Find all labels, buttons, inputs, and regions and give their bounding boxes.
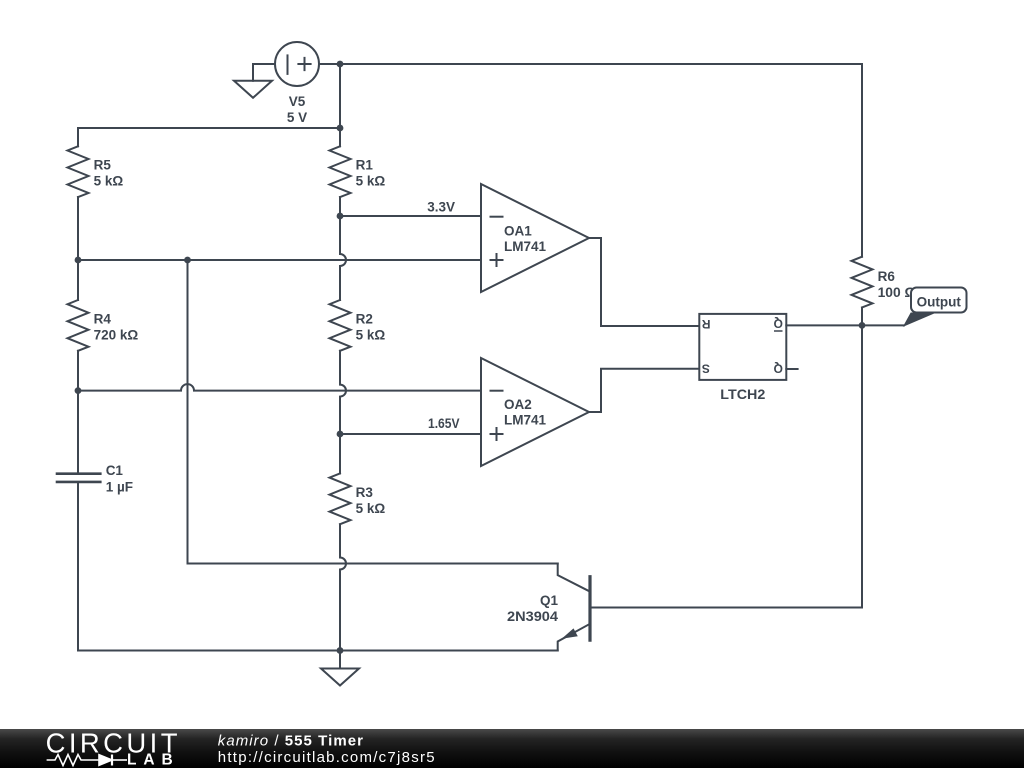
node junction at (340,650.5): [337, 647, 344, 654]
svg-text:R4: R4: [94, 311, 112, 326]
output flag box: [911, 288, 967, 313]
resistor R3: [330, 434, 351, 524]
wire +5V branch to R5 (y=128): [78, 127, 340, 129]
svg-text:5 kΩ: 5 kΩ: [356, 327, 386, 342]
svg-text:C1: C1: [106, 463, 124, 478]
node junction at (78,390.6): [75, 387, 82, 394]
svg-text:R1: R1: [356, 158, 374, 173]
wire V5 positive terminal to node: [319, 63, 340, 65]
svg-text:S: S: [702, 361, 710, 375]
svg-text:5 V: 5 V: [287, 110, 307, 125]
svg-text:3.3V: 3.3V: [427, 200, 455, 215]
svg-text:V5: V5: [289, 94, 306, 109]
node junction at (340,216): [337, 213, 344, 220]
svg-text:http://circuitlab.com/c7j8sr5: http://circuitlab.com/c7j8sr5: [218, 749, 436, 766]
ground symbol at V5: [234, 81, 272, 98]
svg-text:LM741: LM741: [504, 239, 547, 254]
wire top +5V rail from V5 node to right rail: [340, 63, 862, 65]
svg-text:R6: R6: [878, 269, 896, 284]
node junction at (78,260): [75, 257, 82, 264]
op-amp OA1: [481, 184, 589, 292]
capacitor C1: [56, 391, 102, 651]
wire control net: node down from threshold net to collector rail: [188, 260, 558, 564]
resistor R5: [68, 128, 89, 260]
wire trigger net: left rail to OA2 inverting input with hop at x=187.5: [78, 384, 481, 390]
node junction at (862,325.4): [859, 322, 866, 329]
voltage source V5: [275, 42, 319, 86]
wire main rail V5 node down to R1: [339, 64, 341, 128]
latch LTCH2: [699, 314, 786, 380]
pin label Q-bar (rotated, bar below): [774, 316, 783, 331]
ground symbol at bottom: [321, 651, 359, 686]
wire OA2 output to latch S input: [589, 369, 699, 412]
wire output node down to Q1 base: [590, 325, 862, 607]
transistor Q1: [558, 564, 590, 651]
CircuitLab logo resistor-diode glyph: [47, 755, 127, 766]
svg-text:1 µF: 1 µF: [106, 480, 133, 495]
wire rail segment R1 to R2 with hop over +input net: [340, 216, 346, 300]
svg-text:OA1: OA1: [504, 223, 532, 238]
svg-text:OA2: OA2: [504, 397, 532, 412]
svg-text:R3: R3: [356, 485, 374, 500]
svg-text:5 kΩ: 5 kΩ: [356, 501, 386, 516]
node junction at (340,128): [337, 125, 344, 132]
svg-text:Q: Q: [774, 361, 783, 375]
svg-text:R5: R5: [94, 158, 112, 173]
resistor R1: [330, 128, 351, 216]
svg-text:Q: Q: [774, 316, 783, 330]
svg-text:5 kΩ: 5 kΩ: [356, 174, 386, 189]
wire rail segment R3 to ground node with hop over collector rail: [340, 524, 346, 650]
svg-text:R2: R2: [356, 311, 373, 326]
footer bar: [0, 729, 1024, 768]
wire OA1 output to latch R input: [589, 238, 699, 326]
svg-text:Output: Output: [917, 294, 962, 309]
node junction at (187.5,260): [184, 257, 191, 264]
wire bottom ground rail: [78, 650, 558, 652]
svg-text:2N3904: 2N3904: [507, 609, 559, 624]
wire latch Q-bar output to output node: [786, 324, 904, 326]
svg-text:LM741: LM741: [504, 413, 547, 428]
wire V5 negative terminal to ground: [253, 64, 275, 81]
svg-text:LTCH2: LTCH2: [720, 387, 765, 402]
wire 1.65V net: rail node to OA2 non-inverting input: [340, 433, 481, 435]
svg-text:kamiro / 555 Timer: kamiro / 555 Timer: [218, 732, 364, 749]
svg-text:720 kΩ: 720 kΩ: [94, 327, 139, 342]
resistor R4: [68, 260, 89, 391]
wire threshold net: left rail to OA1 non-inverting input (y=260): [78, 259, 481, 261]
svg-text:LAB: LAB: [127, 751, 180, 768]
resistor R6: [852, 64, 873, 325]
node junction at (340,64): [337, 61, 344, 68]
svg-text:5 kΩ: 5 kΩ: [94, 174, 124, 189]
output flag pointer: [904, 313, 934, 326]
node junction at (340,434): [337, 431, 344, 438]
wire rail segment R2 to trigger node with hop over y=390.6 net: [340, 351, 346, 434]
wire latch Q output stub: [786, 368, 797, 370]
svg-text:R: R: [701, 317, 710, 331]
op-amp OA2: [481, 358, 589, 466]
resistor R2: [330, 300, 351, 351]
svg-text:1.65V: 1.65V: [428, 416, 460, 431]
wire 3.3V net: R1 bottom to OA1 inverting input: [340, 215, 481, 217]
svg-text:Q1: Q1: [540, 593, 559, 608]
